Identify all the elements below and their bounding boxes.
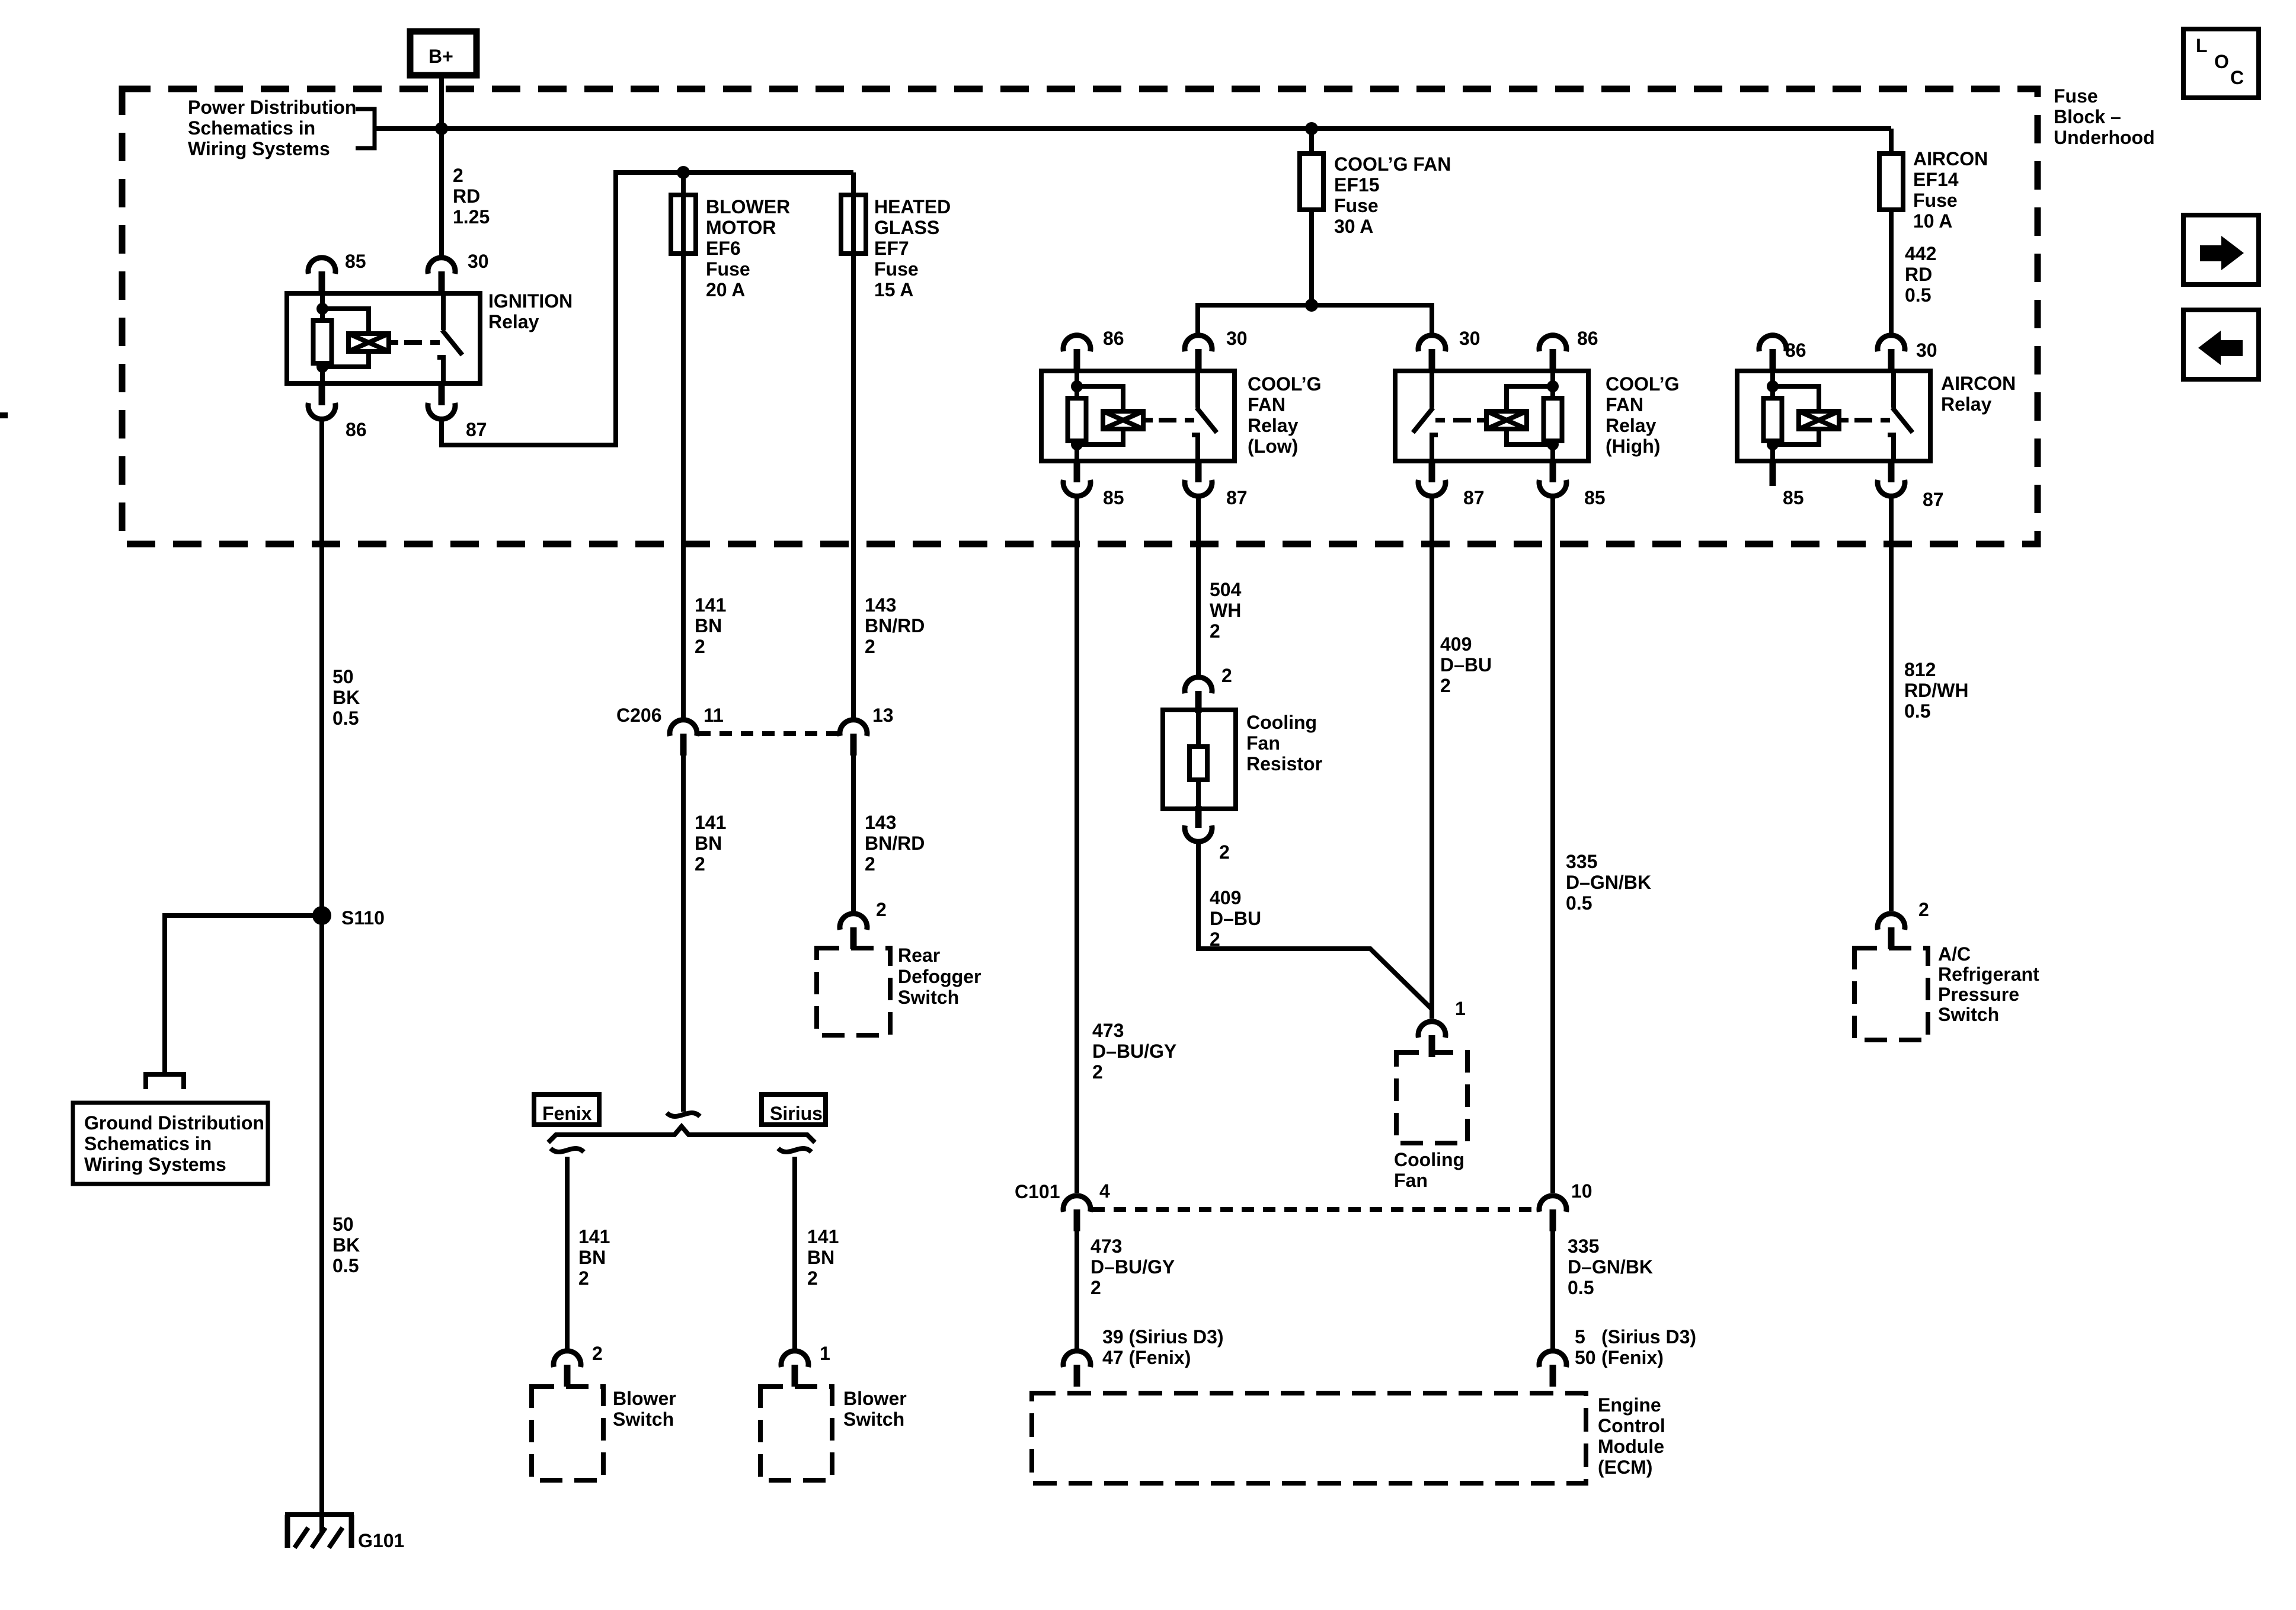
svg-text:50: 50 — [332, 666, 354, 687]
svg-text:11: 11 — [703, 705, 724, 726]
svg-text:BN: BN — [807, 1247, 834, 1268]
svg-text:C206: C206 — [616, 705, 662, 726]
svg-text:EF7: EF7 — [874, 238, 909, 259]
svg-text:2: 2 — [1092, 1061, 1103, 1083]
svg-text:473: 473 — [1092, 1020, 1124, 1041]
svg-text:504: 504 — [1210, 579, 1242, 600]
svg-text:D–BU: D–BU — [1210, 908, 1261, 929]
svg-text:COOL’G: COOL’G — [1606, 373, 1679, 395]
svg-text:2: 2 — [1091, 1277, 1101, 1298]
svg-text:335: 335 — [1568, 1235, 1599, 1257]
svg-text:47 (Fenix): 47 (Fenix) — [1102, 1347, 1191, 1368]
svg-text:30: 30 — [1916, 340, 1937, 361]
svg-text:473: 473 — [1091, 1235, 1122, 1257]
svg-text:D–GN/BK: D–GN/BK — [1568, 1256, 1653, 1278]
svg-text:2: 2 — [1219, 841, 1230, 863]
svg-text:143: 143 — [865, 812, 896, 833]
svg-text:30: 30 — [468, 251, 489, 272]
svg-text:86: 86 — [1577, 328, 1598, 349]
svg-text:Rear: Rear — [898, 945, 940, 966]
svg-text:Switch: Switch — [843, 1409, 904, 1430]
svg-text:0.5: 0.5 — [1904, 700, 1930, 722]
svg-text:20 A: 20 A — [706, 279, 745, 300]
svg-text:2: 2 — [865, 853, 875, 875]
svg-text:2: 2 — [1440, 675, 1451, 696]
svg-text:AIRCON: AIRCON — [1941, 373, 2016, 394]
svg-text:BN: BN — [695, 833, 722, 854]
svg-text:BN: BN — [695, 615, 722, 636]
svg-text:2: 2 — [1221, 665, 1232, 686]
svg-text:FAN: FAN — [1606, 394, 1643, 415]
svg-text:141: 141 — [807, 1226, 839, 1247]
svg-text:Schematics in: Schematics in — [84, 1133, 212, 1154]
svg-text:409: 409 — [1210, 887, 1241, 908]
svg-text:335: 335 — [1566, 851, 1597, 872]
svg-text:2: 2 — [695, 853, 705, 875]
svg-text:409: 409 — [1440, 633, 1472, 655]
svg-text:Relay: Relay — [1606, 415, 1657, 436]
svg-text:HEATED: HEATED — [874, 196, 951, 217]
svg-text:2: 2 — [695, 636, 705, 657]
svg-text:MOTOR: MOTOR — [706, 217, 776, 238]
svg-text:0.5: 0.5 — [1568, 1277, 1594, 1298]
svg-text:2: 2 — [453, 165, 463, 186]
svg-text:COOL’G FAN: COOL’G FAN — [1334, 153, 1451, 175]
svg-text:Fuse: Fuse — [706, 258, 750, 280]
svg-text:442: 442 — [1905, 243, 1936, 264]
svg-text:1: 1 — [1455, 998, 1466, 1019]
svg-text:O: O — [2214, 51, 2229, 72]
svg-text:Blower: Blower — [613, 1388, 676, 1409]
svg-text:BK: BK — [332, 1234, 360, 1256]
svg-text:Wiring Systems: Wiring Systems — [188, 138, 330, 159]
svg-text:1.25: 1.25 — [453, 206, 490, 228]
svg-text:(ECM): (ECM) — [1598, 1457, 1652, 1478]
svg-text:Ground Distribution: Ground Distribution — [84, 1112, 264, 1134]
svg-text:87: 87 — [1463, 487, 1485, 508]
svg-text:Switch: Switch — [1938, 1004, 1999, 1025]
svg-text:Fenix: Fenix — [542, 1103, 592, 1124]
svg-text:EF6: EF6 — [706, 238, 741, 259]
svg-text:143: 143 — [865, 594, 896, 616]
svg-text:50: 50 — [1575, 1347, 1596, 1368]
svg-text:Cooling: Cooling — [1394, 1149, 1464, 1170]
svg-text:86: 86 — [1103, 328, 1124, 349]
svg-text:Refrigerant: Refrigerant — [1938, 964, 2039, 985]
svg-text:13: 13 — [872, 705, 894, 726]
svg-text:BN/RD: BN/RD — [865, 615, 925, 636]
svg-text:2: 2 — [592, 1343, 603, 1364]
svg-text:Fan: Fan — [1246, 732, 1280, 754]
svg-text:2: 2 — [876, 899, 887, 920]
svg-text:Underhood: Underhood — [2054, 127, 2155, 148]
svg-text:Cooling: Cooling — [1246, 712, 1317, 733]
svg-text:50: 50 — [332, 1214, 354, 1235]
svg-text:0.5: 0.5 — [332, 1255, 359, 1276]
svg-text:EF14: EF14 — [1913, 169, 1959, 190]
svg-text:85: 85 — [345, 251, 366, 272]
svg-text:Pressure: Pressure — [1938, 984, 2019, 1005]
svg-text:(High): (High) — [1606, 436, 1660, 457]
svg-text:G101: G101 — [358, 1530, 404, 1551]
svg-text:Power Distribution: Power Distribution — [188, 97, 356, 118]
svg-text:EF15: EF15 — [1334, 174, 1379, 196]
svg-text:C101: C101 — [1015, 1181, 1060, 1202]
svg-text:Fuse: Fuse — [874, 258, 919, 280]
svg-text:0.5: 0.5 — [332, 708, 359, 729]
svg-text:87: 87 — [1226, 487, 1248, 508]
svg-text:30: 30 — [1226, 328, 1248, 349]
svg-text:10: 10 — [1571, 1180, 1593, 1202]
svg-text:2: 2 — [1918, 899, 1929, 920]
svg-text:86: 86 — [346, 419, 367, 440]
svg-text:WH: WH — [1210, 600, 1241, 621]
svg-text:Fuse: Fuse — [1913, 190, 1958, 211]
svg-text:0.5: 0.5 — [1566, 892, 1592, 914]
svg-text:(Fenix): (Fenix) — [1601, 1347, 1664, 1368]
svg-text:BN: BN — [578, 1247, 606, 1268]
svg-text:Block –: Block – — [2054, 106, 2121, 127]
svg-text:86: 86 — [1785, 340, 1806, 361]
svg-text:Relay: Relay — [1248, 415, 1299, 436]
svg-text:RD: RD — [453, 185, 480, 207]
svg-text:D–BU/GY: D–BU/GY — [1091, 1256, 1175, 1278]
svg-text:FAN: FAN — [1248, 394, 1285, 415]
svg-text:1: 1 — [820, 1343, 830, 1364]
svg-text:4: 4 — [1099, 1180, 1110, 1202]
svg-text:141: 141 — [578, 1226, 610, 1247]
svg-text:141: 141 — [695, 812, 726, 833]
svg-text:BK: BK — [332, 687, 360, 708]
svg-text:87: 87 — [466, 419, 487, 440]
svg-text:GLASS: GLASS — [874, 217, 939, 238]
svg-text:39 (Sirius D3): 39 (Sirius D3) — [1102, 1326, 1224, 1347]
svg-text:2: 2 — [807, 1267, 818, 1289]
svg-text:Wiring Systems: Wiring Systems — [84, 1154, 226, 1175]
svg-text:RD/WH: RD/WH — [1904, 680, 1968, 701]
svg-text:IGNITION: IGNITION — [488, 290, 573, 312]
svg-text:(Low): (Low) — [1248, 436, 1298, 457]
svg-text:Fan: Fan — [1394, 1170, 1428, 1191]
svg-text:S110: S110 — [341, 907, 385, 929]
svg-text:30: 30 — [1459, 328, 1480, 349]
svg-text:30 A: 30 A — [1334, 216, 1373, 237]
svg-text:Switch: Switch — [613, 1409, 674, 1430]
svg-text:Schematics in: Schematics in — [188, 117, 315, 139]
svg-text:BN/RD: BN/RD — [865, 833, 925, 854]
svg-text:Sirius: Sirius — [770, 1103, 823, 1124]
svg-text:2: 2 — [1210, 620, 1220, 642]
svg-text:85: 85 — [1103, 487, 1124, 508]
svg-text:D–GN/BK: D–GN/BK — [1566, 872, 1651, 893]
svg-text:10 A: 10 A — [1913, 210, 1952, 232]
svg-text:C: C — [2230, 67, 2244, 88]
svg-text:Module: Module — [1598, 1436, 1664, 1457]
svg-text:A/C: A/C — [1938, 943, 1971, 965]
svg-text:2: 2 — [578, 1267, 589, 1289]
svg-text:Relay: Relay — [1941, 393, 1992, 415]
svg-text:D–BU: D–BU — [1440, 654, 1492, 676]
svg-text:RD: RD — [1905, 264, 1932, 285]
svg-text:2: 2 — [865, 636, 875, 657]
svg-text:812: 812 — [1904, 659, 1936, 680]
svg-text:AIRCON: AIRCON — [1913, 148, 1988, 169]
svg-text:Defogger: Defogger — [898, 966, 981, 987]
svg-text:(Sirius D3): (Sirius D3) — [1601, 1326, 1696, 1347]
svg-text:15 A: 15 A — [874, 279, 913, 300]
svg-text:L: L — [2196, 35, 2208, 56]
svg-text:87: 87 — [1923, 489, 1944, 510]
svg-text:Blower: Blower — [843, 1388, 907, 1409]
svg-text:COOL’G: COOL’G — [1248, 373, 1321, 395]
svg-text:141: 141 — [695, 594, 726, 616]
svg-text:Fuse: Fuse — [2054, 85, 2098, 107]
svg-text:Engine: Engine — [1598, 1394, 1661, 1416]
svg-text:Resistor: Resistor — [1246, 753, 1322, 774]
svg-text:5: 5 — [1575, 1326, 1585, 1347]
svg-text:0.5: 0.5 — [1905, 284, 1931, 306]
svg-text:BLOWER: BLOWER — [706, 196, 790, 217]
svg-text:Control: Control — [1598, 1415, 1665, 1436]
svg-text:D–BU/GY: D–BU/GY — [1092, 1041, 1176, 1062]
svg-text:Relay: Relay — [488, 311, 539, 332]
svg-text:Switch: Switch — [898, 987, 959, 1008]
svg-text:85: 85 — [1783, 487, 1804, 508]
svg-text:B+: B+ — [428, 46, 453, 67]
svg-text:85: 85 — [1584, 487, 1606, 508]
svg-text:Fuse: Fuse — [1334, 195, 1379, 216]
